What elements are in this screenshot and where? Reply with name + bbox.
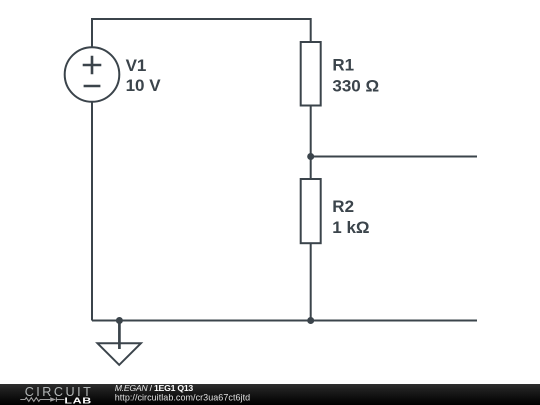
wire ground rail — [92, 320, 477, 322]
voltage source V1 — [65, 47, 120, 102]
wire R1 bottom to node A — [310, 106, 312, 157]
svg-text:V1: V1 — [126, 56, 147, 75]
svg-text:R1: R1 — [332, 56, 354, 75]
svg-text:R2: R2 — [332, 197, 354, 216]
junction dot R2 bottom — [307, 317, 314, 324]
footer bar — [0, 384, 540, 405]
label R1 330 Ω — [332, 56, 379, 96]
resistor R2 — [301, 179, 321, 243]
label R2 1 kΩ — [332, 197, 369, 237]
svg-text:10 V: 10 V — [126, 76, 162, 95]
CircuitLab logo resistor zigzag — [20, 398, 50, 402]
wire top from V1 to R1 — [92, 19, 311, 47]
ground — [98, 321, 141, 365]
svg-text:http://circuitlab.com/cr3ua67c: http://circuitlab.com/cr3ua67ct6jtd — [115, 392, 250, 402]
node A junction dot — [307, 153, 314, 160]
wire R2 bottom to ground rail — [310, 243, 312, 320]
junction dot ground tap — [116, 317, 123, 324]
label V1 10 V — [126, 56, 162, 95]
CircuitLab logo diode symbol — [50, 397, 64, 401]
svg-text:1 kΩ: 1 kΩ — [332, 218, 369, 237]
svg-text:330 Ω: 330 Ω — [332, 76, 379, 95]
wire node A to right — [311, 156, 477, 158]
resistor R1 — [301, 42, 321, 106]
wire V1 bottom to ground rail — [91, 102, 93, 321]
wire node A to R2 — [310, 157, 312, 180]
svg-text:LAB: LAB — [64, 396, 91, 405]
